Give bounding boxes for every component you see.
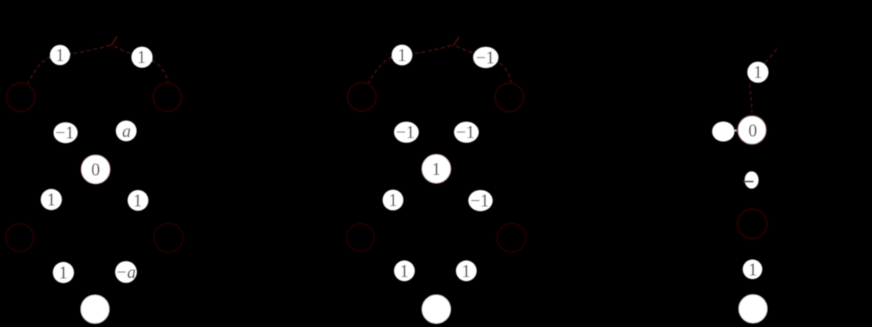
- graph 3 : node 0: [737, 115, 767, 145]
- graph 2 : edge label -1 top-right: [473, 47, 498, 68]
- graph 2 : edge label 1 lower-left: [383, 190, 404, 211]
- graph 2 : edge label -1 mid-right: [454, 122, 479, 143]
- graph 3 : edge label 1 top: [747, 62, 768, 83]
- graph 2 : filled sink node bottom: [421, 294, 451, 324]
- graph 3 : edge label 1 bottom: [743, 259, 763, 279]
- graph 3 : hollow node: [738, 209, 767, 238]
- svg-text:−1: −1: [55, 123, 74, 143]
- svg-text:1: 1: [754, 62, 763, 82]
- graph 2 : edge label 1 bottom-right: [456, 260, 477, 281]
- svg-text:0: 0: [748, 120, 757, 140]
- graph 2 : hollow node bottom-right: [497, 224, 526, 253]
- graph 1 : edge label a mid-right: [116, 120, 137, 141]
- graph 1 : edge label 1 lower-left: [41, 189, 62, 210]
- svg-text:1: 1: [432, 159, 441, 179]
- svg-text:0: 0: [91, 160, 100, 180]
- graph 1 : apex stub: [111, 37, 117, 47]
- graph 2 : edge label -1 mid-left: [394, 122, 419, 143]
- graph 1 : edge label -1 mid-left: [54, 122, 78, 143]
- graph 2 : apex stub: [453, 37, 459, 46]
- svg-text:1: 1: [400, 261, 409, 281]
- svg-text:−1: −1: [396, 122, 415, 142]
- graph 1 : edge label -a bottom-right: [115, 261, 137, 283]
- svg-text:1: 1: [137, 47, 146, 67]
- graph 1 : hollow node bottom-left: [6, 224, 34, 252]
- graph 1 : filled sink node bottom: [80, 294, 110, 324]
- svg-text:1: 1: [47, 190, 56, 210]
- graph 2 : dashed edge from apex through label to top-right ring: [456, 46, 511, 82]
- graph 1 : edge label 1 top-left: [50, 45, 70, 65]
- svg-text:1: 1: [133, 190, 142, 210]
- graph 3 : white blob left of node 0: [712, 122, 734, 142]
- graph 2 : dashed edge from top-left ring through label to apex: [368, 45, 454, 86]
- svg-text:−1: −1: [456, 122, 475, 142]
- graph 1 : node 0 center: [81, 154, 111, 184]
- svg-text:1: 1: [748, 259, 757, 279]
- svg-text:1: 1: [398, 45, 407, 65]
- graph 2 : node 1 center: [421, 154, 451, 184]
- svg-text:1: 1: [389, 190, 398, 210]
- graph 2 : edge label -1 lower-right: [468, 190, 492, 211]
- svg-text:−a: −a: [115, 262, 136, 282]
- graph 3 : edge label minus blob: [743, 171, 758, 188]
- graph 1 : hollow node bottom-right: [154, 223, 183, 252]
- svg-text:a: a: [122, 121, 131, 141]
- svg-text:1: 1: [462, 261, 471, 281]
- svg-text:1: 1: [59, 263, 68, 283]
- graph 2 : hollow node top-left: [348, 83, 376, 111]
- graph 3 : dashed edge stub above label: [765, 47, 779, 64]
- graph 3 : dashed edge from label down to node 0: [750, 84, 753, 113]
- graph 2 : edge label 1 bottom-left: [394, 260, 415, 281]
- graph 3 : tiny white speck between blob and node: [735, 130, 738, 132]
- graph 1 : edge label 1 bottom-left: [53, 262, 74, 283]
- graph 2 : hollow node bottom-left: [347, 224, 375, 252]
- graph 1 : edge label 1 top-right: [131, 47, 152, 68]
- svg-text:−1: −1: [476, 47, 495, 67]
- graph 1 : hollow node top-left: [7, 83, 35, 111]
- svg-text:−1: −1: [470, 191, 489, 211]
- graph 2 : hollow node top-right: [495, 83, 523, 111]
- graph 1 : edge label 1 lower-right: [128, 190, 149, 211]
- graph 1 : dashed edge from top-left ring through label to apex: [27, 45, 112, 86]
- svg-text:1: 1: [56, 45, 65, 65]
- graph 2 : edge label 1 top-left: [392, 45, 413, 66]
- graph 1 : dashed edge from apex through label to top-right ring: [114, 46, 168, 82]
- graph 3 : filled sink node bottom: [738, 294, 768, 324]
- graph 1 : hollow node top-right: [153, 83, 181, 111]
